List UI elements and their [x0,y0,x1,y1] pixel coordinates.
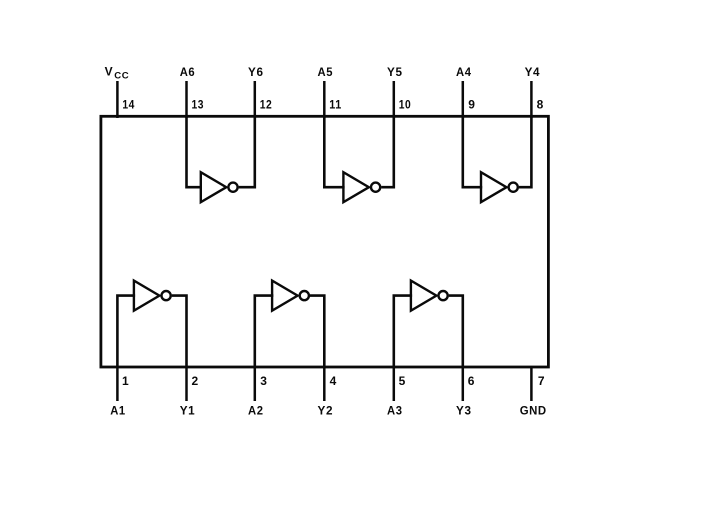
svg-text:Y2: Y2 [318,404,334,418]
svg-text:4: 4 [330,374,337,388]
pin 10 lead [393,81,396,118]
wire Y2: U5 output to pin 4 [310,296,324,367]
IC body outline [101,116,549,367]
inverter U1 output bubble [228,183,237,192]
svg-text:A1: A1 [110,404,126,418]
pin 12 lead [254,81,257,118]
svg-text:9: 9 [468,98,475,112]
svg-text:A6: A6 [180,65,196,79]
wire Y6: U1 output to pin 12 [239,117,255,188]
inverter U1 (A6 to Y6) [201,172,227,202]
svg-text:8: 8 [537,98,544,112]
pin 8 lead [530,81,533,118]
svg-text:2: 2 [192,374,199,388]
pin 4 lead [323,366,326,401]
svg-text:A3: A3 [387,404,403,418]
pin 2 lead [185,366,188,401]
wire A3: pin 5 to U6 input [394,296,412,367]
inverter U2 output bubble [371,183,380,192]
svg-text:Y6: Y6 [248,65,264,79]
inverter U6 (A3 to Y3) [411,281,437,311]
wire Y3: U6 output to pin 6 [449,296,463,367]
svg-text:5: 5 [399,374,406,388]
pin 3 lead [254,366,257,401]
svg-text:A2: A2 [248,404,264,418]
inverter U3 output bubble [509,183,518,192]
net VCC label [105,65,130,82]
svg-text:12: 12 [260,98,273,112]
wire A4: pin 9 to U3 input [463,117,482,188]
svg-text:A5: A5 [318,65,334,79]
svg-text:10: 10 [399,98,412,112]
inverter U3 (A4 to Y4) [481,172,507,202]
svg-text:A4: A4 [456,65,472,79]
svg-text:Y1: Y1 [180,404,196,418]
svg-text:1: 1 [122,374,129,388]
wire A2: pin 3 to U5 input [255,296,273,367]
svg-text:14: 14 [122,98,134,112]
svg-text:6: 6 [468,374,475,388]
svg-text:CC: CC [114,71,129,82]
svg-text:3: 3 [260,374,267,388]
svg-text:Y3: Y3 [456,404,472,418]
inverter U2 (A5 to Y5) [343,172,369,202]
wire Y5: U2 output to pin 10 [381,117,394,188]
pin 11 lead [323,81,326,118]
inverter U4 (A1 to Y1) [134,281,160,311]
pin 5 lead [393,366,396,401]
svg-text:Y5: Y5 [387,65,403,79]
svg-text:V: V [105,65,114,79]
wire Y4: U3 output to pin 8 [519,117,532,188]
pin 13 lead [185,81,188,118]
svg-text:Y4: Y4 [525,65,541,79]
wire A5: pin 11 to U2 input [324,117,344,188]
wire Y1: U4 output to pin 2 [172,296,187,367]
pin 9 lead [462,81,465,118]
inverter U5 (A2 to Y2) [272,281,298,311]
svg-text:13: 13 [192,98,205,112]
wire A1: pin 1 to U4 input [117,296,135,367]
pin 6 lead [462,366,465,401]
inverter U4 output bubble [162,291,171,300]
pin 14 lead [116,81,119,118]
inverter U6 output bubble [439,291,448,300]
pin 7 lead [530,366,533,401]
wire A6: pin 13 to U1 input [187,117,203,188]
inverter U5 output bubble [300,291,309,300]
pin 1 lead [116,366,119,401]
svg-text:7: 7 [538,374,545,388]
svg-text:11: 11 [329,98,342,112]
svg-text:GND: GND [520,404,547,418]
